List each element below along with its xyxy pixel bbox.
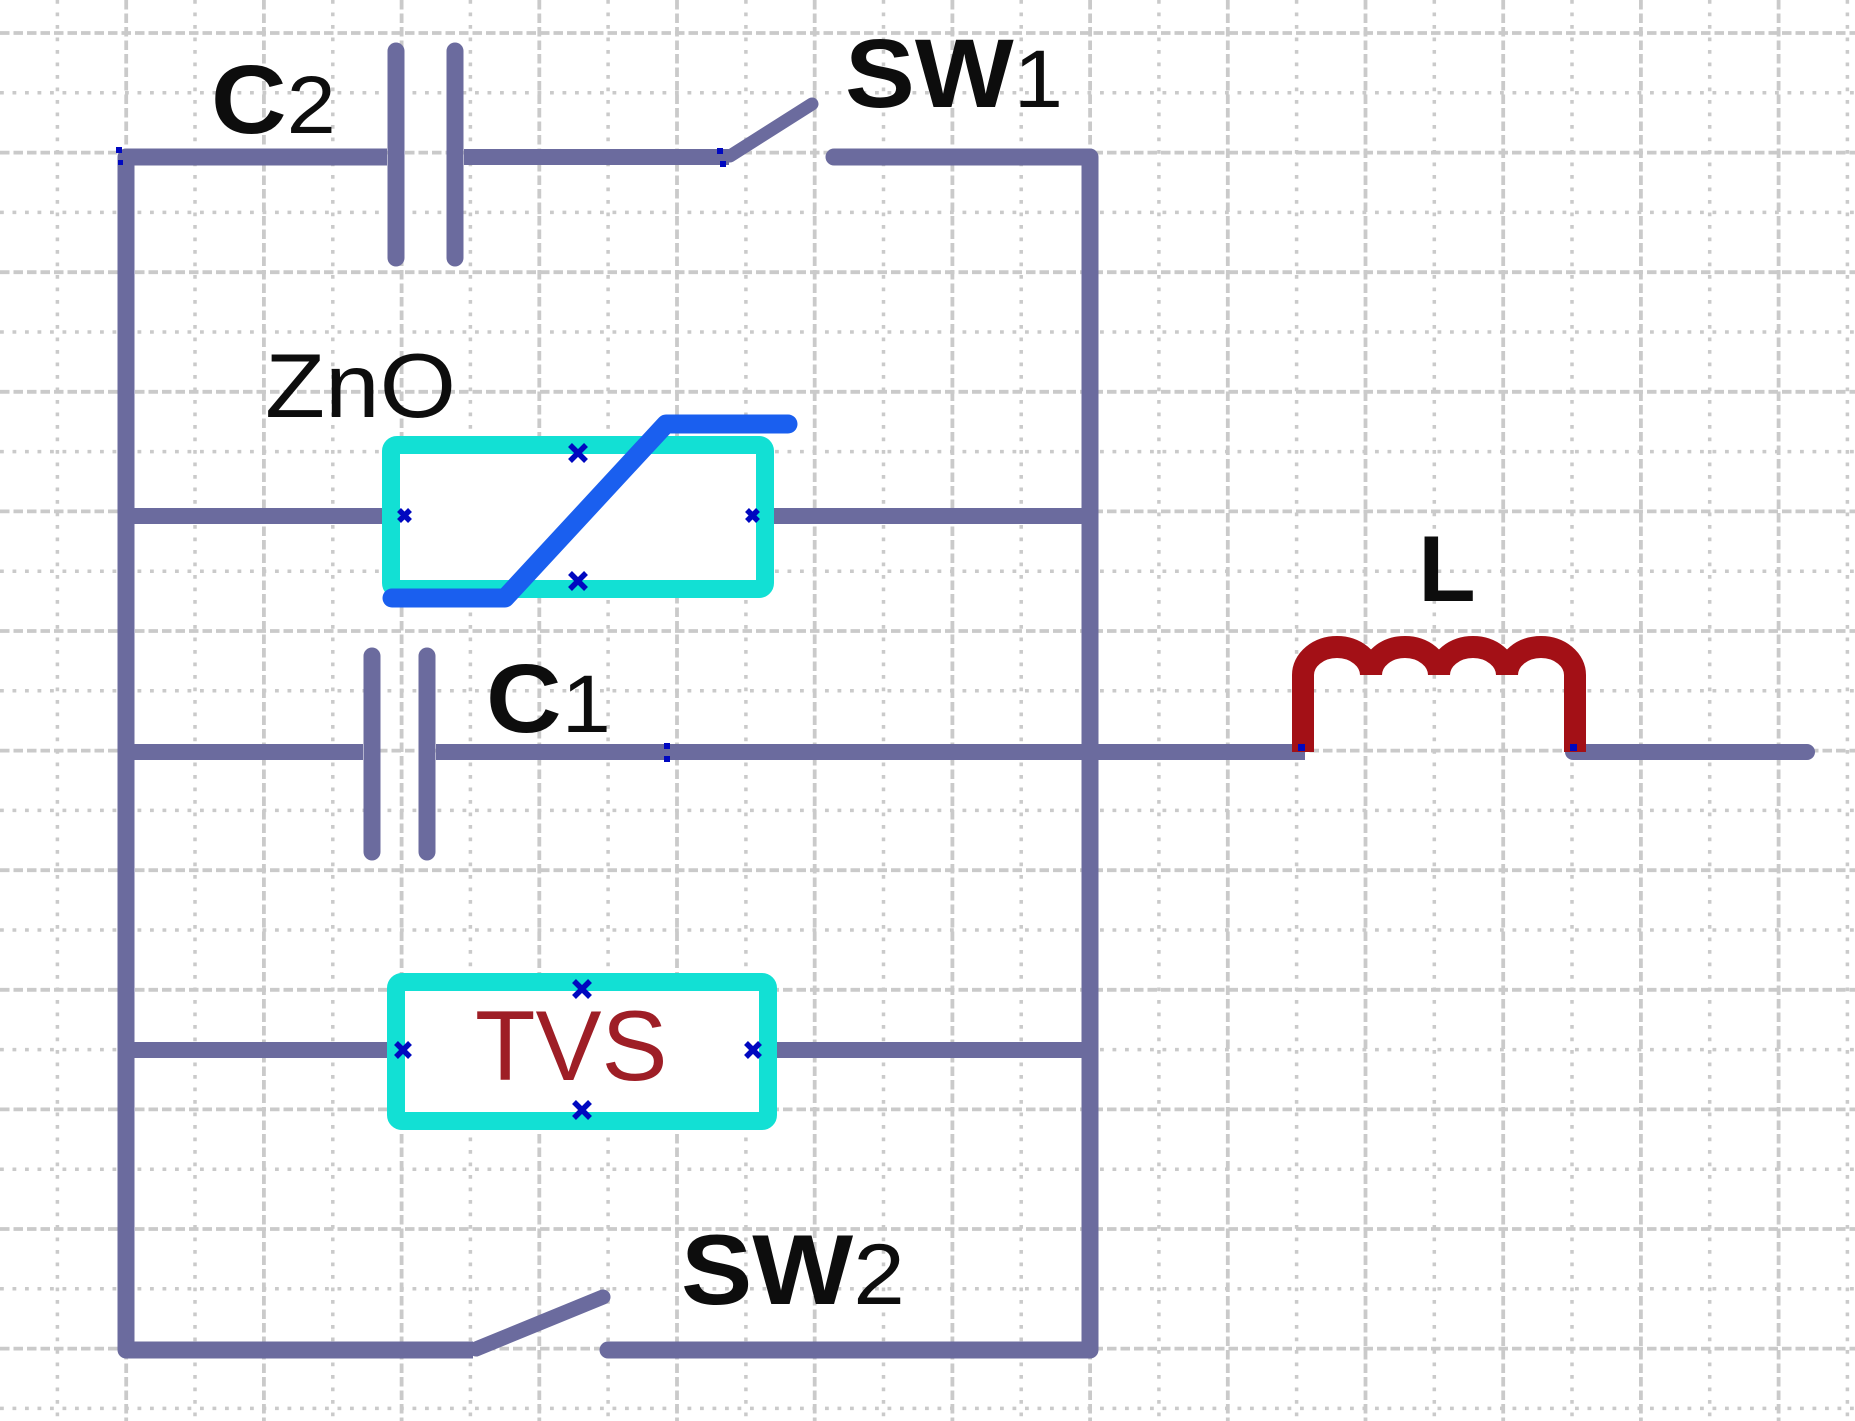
wire: left bus with top and bottom branch corners bbox=[126, 157, 473, 1350]
varistor ZnO blue stroke bbox=[392, 424, 788, 598]
svg-text:L: L bbox=[1418, 516, 1475, 621]
wire: right bus with top and bottom corners bbox=[608, 157, 1090, 1350]
wire: output after inductor bbox=[1573, 744, 1807, 760]
svg-text:SW1: SW1 bbox=[845, 21, 1063, 129]
svg-text:ZnO: ZnO bbox=[265, 335, 456, 437]
wire: ZnO branch left bbox=[126, 508, 395, 524]
node: TVS pin markers bbox=[396, 981, 760, 1118]
switch SW1 blade bbox=[730, 104, 812, 156]
TVS body bbox=[396, 982, 768, 1121]
wire: ZnO branch right bbox=[762, 508, 1090, 524]
wire: C1 branch left bbox=[126, 744, 363, 760]
capacitor C2 plates bbox=[396, 51, 455, 258]
varistor ZnO body bbox=[391, 445, 765, 589]
wire: top branch between C2 and SW1 pivot bbox=[464, 149, 729, 165]
node: ZnO pin markers bbox=[399, 445, 758, 589]
capacitor C1 plates bbox=[372, 656, 427, 852]
node: inductor pin markers bbox=[1298, 744, 1305, 751]
node: mid-wire markers bbox=[664, 743, 670, 749]
inductor L bbox=[1303, 647, 1575, 752]
wire: C1 branch through right bus to inductor bbox=[436, 744, 1305, 760]
svg-text:C2: C2 bbox=[211, 47, 336, 155]
node: SW1 pivot markers bbox=[717, 148, 723, 154]
node: top-left corner markers bbox=[116, 147, 122, 153]
switch SW2 blade bbox=[476, 1297, 603, 1349]
wire: TVS branch right bbox=[764, 1042, 1090, 1058]
svg-text:SW2: SW2 bbox=[681, 1215, 905, 1325]
svg-text:C1: C1 bbox=[486, 646, 611, 754]
wire: TVS branch left bbox=[126, 1042, 400, 1058]
svg-text:TVS: TVS bbox=[475, 990, 668, 1101]
